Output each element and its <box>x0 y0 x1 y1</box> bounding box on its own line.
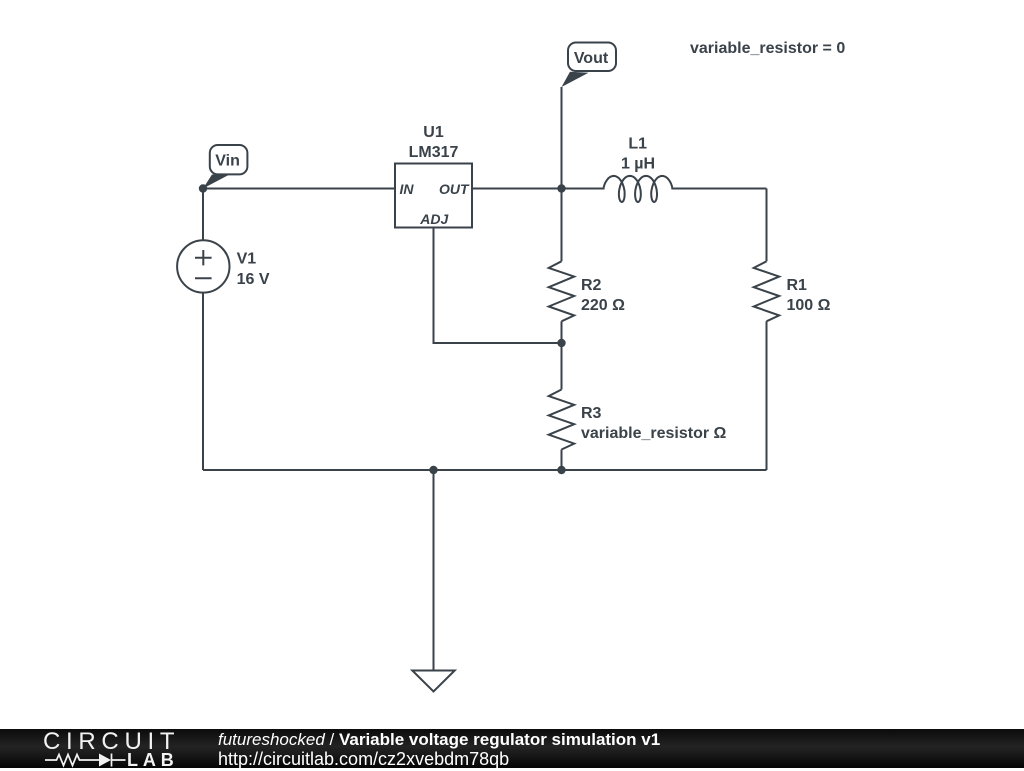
wire Vout vertical <box>561 87 563 189</box>
wire R2 top <box>561 189 563 262</box>
svg-text:Vout: Vout <box>574 50 609 67</box>
node junction Vin <box>199 184 207 192</box>
svg-text:Vin: Vin <box>215 153 240 170</box>
svg-text:V1: V1 <box>237 251 257 268</box>
CircuitLab logo text CIRCUIT <box>43 728 180 756</box>
svg-text:R2: R2 <box>581 277 602 294</box>
footer line 1 <box>218 730 660 750</box>
wire Vin node to U1 IN <box>203 188 395 190</box>
node Vout flag <box>562 43 617 88</box>
svg-text:ADJ: ADJ <box>419 211 449 227</box>
ground <box>412 470 454 692</box>
wire junction to inductor L1 <box>562 188 604 189</box>
wire R1 top <box>766 189 768 262</box>
node junction R2/R3/ADJ <box>557 339 565 347</box>
svg-text:IN: IN <box>400 181 415 197</box>
footer bar <box>0 729 1024 768</box>
wire U1 OUT to Vout junction <box>472 188 562 190</box>
svg-text:variable_resistor Ω: variable_resistor Ω <box>581 425 727 442</box>
wire inductor L1 to right corner <box>672 188 766 189</box>
node Vin flag <box>203 145 247 189</box>
CircuitLab logo resistor-diode glyph and LAB <box>40 750 180 768</box>
resistor R1 <box>754 261 831 321</box>
svg-text:OUT: OUT <box>439 181 470 197</box>
svg-text:U1: U1 <box>423 124 444 141</box>
svg-text:100 Ω: 100 Ω <box>787 297 831 314</box>
resistor R3 <box>549 390 727 450</box>
inductor L1 coil <box>604 136 673 203</box>
wire R3 bottom <box>561 450 563 471</box>
wire R1 bottom <box>766 321 768 470</box>
wire bottom rail <box>203 469 767 471</box>
wire V1 bottom <box>202 293 204 470</box>
node junction at OUT/Vout <box>557 184 565 192</box>
svg-text:R3: R3 <box>581 405 602 422</box>
resistor R2 <box>549 261 625 321</box>
node junction ground <box>429 466 437 474</box>
wire V1 top <box>202 189 204 241</box>
svg-text:variable_resistor = 0: variable_resistor = 0 <box>690 40 845 57</box>
svg-text:1 µH: 1 µH <box>621 155 655 172</box>
op-amp U1 LM317 box <box>395 124 472 228</box>
svg-text:220 Ω: 220 Ω <box>581 297 625 314</box>
wire ADJ junction to R3 <box>561 343 563 390</box>
svg-text:LM317: LM317 <box>409 144 459 161</box>
footer line 2 <box>218 749 509 770</box>
wire U1 ADJ pin down and right <box>434 228 562 344</box>
voltage source V1 <box>177 240 270 292</box>
svg-text:R1: R1 <box>787 277 808 294</box>
node junction R3 bottom <box>557 466 565 474</box>
svg-text:L1: L1 <box>628 136 647 153</box>
svg-text:16 V: 16 V <box>237 271 270 288</box>
wire R2 bottom to ADJ junction <box>561 321 563 343</box>
